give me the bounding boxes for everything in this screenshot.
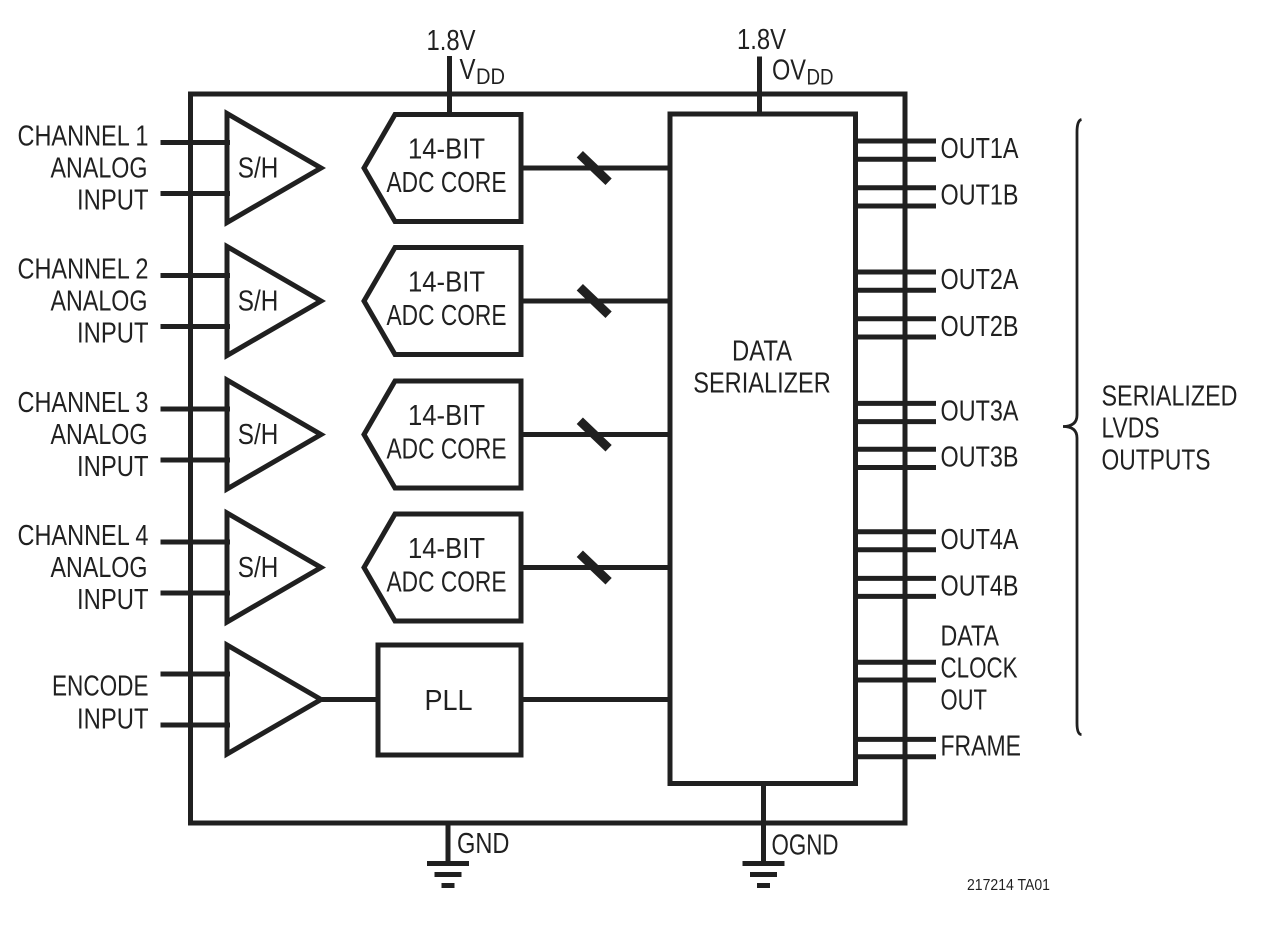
svg-text:217214 TA01: 217214 TA01 bbox=[967, 877, 1050, 894]
svg-text:CHANNEL 1: CHANNEL 1 bbox=[18, 121, 149, 153]
svg-text:CLOCK: CLOCK bbox=[941, 653, 1019, 685]
svg-text:INPUT: INPUT bbox=[77, 584, 149, 616]
svg-text:CHANNEL 2: CHANNEL 2 bbox=[18, 254, 149, 286]
svg-text:INPUT: INPUT bbox=[77, 704, 149, 736]
svg-text:S/H: S/H bbox=[238, 286, 279, 318]
svg-text:ANALOG: ANALOG bbox=[51, 286, 148, 318]
svg-text:OUT3B: OUT3B bbox=[941, 441, 1019, 473]
svg-text:OUTPUTS: OUTPUTS bbox=[1102, 445, 1211, 477]
svg-text:OUT: OUT bbox=[941, 685, 988, 717]
svg-text:ADC CORE: ADC CORE bbox=[387, 567, 507, 599]
svg-text:ADC CORE: ADC CORE bbox=[387, 300, 507, 332]
svg-text:LVDS: LVDS bbox=[1102, 413, 1160, 445]
svg-text:V: V bbox=[460, 54, 477, 86]
svg-text:INPUT: INPUT bbox=[77, 318, 149, 350]
svg-text:DATA: DATA bbox=[732, 336, 793, 368]
svg-text:OUT3A: OUT3A bbox=[941, 395, 1020, 427]
svg-text:INPUT: INPUT bbox=[77, 185, 149, 217]
svg-text:OUT4B: OUT4B bbox=[941, 570, 1019, 602]
svg-text:ANALOG: ANALOG bbox=[51, 419, 148, 451]
svg-text:OUT4A: OUT4A bbox=[941, 524, 1020, 556]
svg-text:ADC CORE: ADC CORE bbox=[387, 167, 507, 199]
svg-text:PLL: PLL bbox=[425, 685, 473, 717]
svg-text:OV: OV bbox=[772, 55, 807, 87]
svg-text:DD: DD bbox=[476, 64, 505, 89]
svg-text:ENCODE: ENCODE bbox=[52, 671, 149, 703]
svg-text:SERIALIZER: SERIALIZER bbox=[693, 368, 831, 400]
svg-text:CHANNEL 4: CHANNEL 4 bbox=[18, 520, 149, 552]
svg-text:OUT2A: OUT2A bbox=[941, 264, 1020, 296]
svg-text:DD: DD bbox=[807, 65, 834, 90]
svg-text:S/H: S/H bbox=[238, 419, 279, 451]
svg-text:FRAME: FRAME bbox=[941, 731, 1022, 763]
svg-text:14-BIT: 14-BIT bbox=[408, 400, 485, 432]
svg-text:INPUT: INPUT bbox=[77, 451, 149, 483]
svg-text:OUT2B: OUT2B bbox=[941, 311, 1019, 343]
svg-text:ANALOG: ANALOG bbox=[51, 153, 148, 185]
svg-text:S/H: S/H bbox=[238, 552, 279, 584]
svg-text:GND: GND bbox=[457, 828, 510, 860]
svg-text:OGND: OGND bbox=[772, 830, 839, 862]
svg-text:S/H: S/H bbox=[238, 153, 279, 185]
svg-text:DATA: DATA bbox=[941, 620, 1000, 652]
svg-text:14-BIT: 14-BIT bbox=[408, 134, 485, 166]
svg-text:14-BIT: 14-BIT bbox=[408, 533, 485, 565]
svg-text:ADC CORE: ADC CORE bbox=[387, 434, 507, 466]
svg-text:14-BIT: 14-BIT bbox=[408, 267, 485, 299]
svg-text:1.8V: 1.8V bbox=[737, 24, 787, 56]
svg-text:ANALOG: ANALOG bbox=[51, 552, 148, 584]
svg-text:SERIALIZED: SERIALIZED bbox=[1102, 381, 1238, 413]
svg-text:OUT1B: OUT1B bbox=[941, 180, 1019, 212]
svg-text:OUT1A: OUT1A bbox=[941, 133, 1020, 165]
svg-text:1.8V: 1.8V bbox=[427, 25, 477, 57]
svg-text:CHANNEL 3: CHANNEL 3 bbox=[18, 387, 149, 419]
